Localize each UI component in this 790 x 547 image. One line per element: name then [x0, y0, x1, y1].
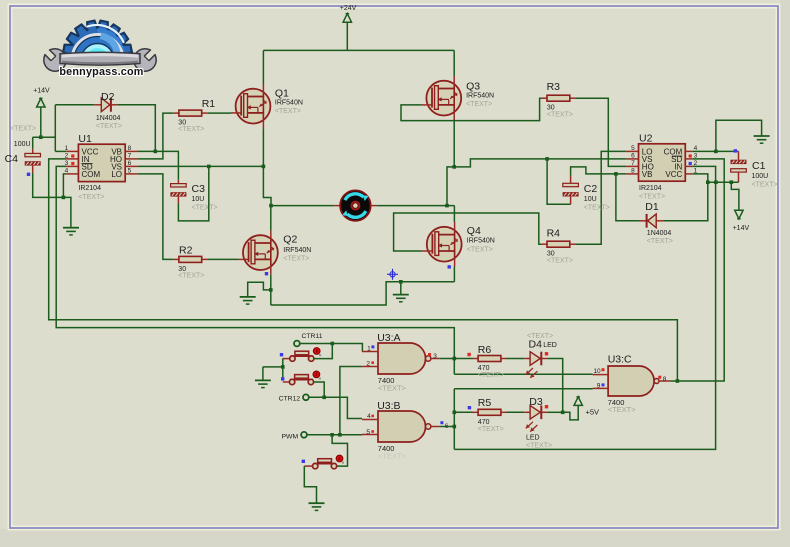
svg-text:U2: U2	[639, 132, 653, 144]
svg-text:IRF540N: IRF540N	[275, 100, 303, 107]
IC U1 IR2104 body	[78, 144, 125, 181]
lead D1 left	[639, 220, 647, 222]
svg-text:COM: COM	[82, 170, 101, 179]
wire button2 right down	[314, 382, 325, 397]
svg-text:<TEXT>: <TEXT>	[647, 238, 673, 245]
marker blue U3B pin6	[440, 421, 443, 424]
lead D2 right	[111, 104, 117, 106]
lead D1 right	[656, 220, 663, 222]
ground top right	[754, 135, 770, 137]
junction Q2 source ground tap	[269, 288, 273, 292]
wire COM to ground	[716, 120, 762, 151]
lead C3 bottom	[177, 197, 179, 204]
svg-text:<TEXT>: <TEXT>	[639, 194, 665, 201]
transistor Q4 IRF540N	[427, 227, 462, 262]
svg-text:Q4: Q4	[467, 225, 481, 237]
ground below U1	[63, 227, 79, 229]
marker red U3C pin8	[658, 376, 661, 379]
wire C3 bottom loop to VS	[178, 166, 208, 221]
junction net B U3B out	[453, 425, 457, 429]
wire R5 to D3	[507, 411, 525, 413]
svg-text:CTR11: CTR11	[302, 333, 323, 340]
marker blue C1 top	[734, 149, 737, 152]
lead button1 left	[283, 358, 290, 360]
button 3	[318, 459, 332, 463]
svg-text:+14V: +14V	[733, 225, 750, 232]
wire button3 to ground	[304, 466, 316, 503]
junction net A output row	[453, 357, 457, 361]
svg-text:PWM: PWM	[282, 433, 299, 440]
U3:C input stubs	[593, 374, 609, 376]
svg-text:<TEXT>: <TEXT>	[96, 123, 122, 130]
U3:B input stubs	[362, 419, 378, 421]
marker blue R5 left	[468, 406, 471, 409]
junction PWM button3	[330, 433, 334, 437]
wire PWM to U3A pin2	[340, 367, 362, 435]
wire rail to Q3 drain	[453, 50, 455, 76]
marker blue Q4 source	[448, 265, 451, 268]
svg-text:C4: C4	[5, 153, 19, 165]
wire net A to U3C pin10	[454, 373, 592, 375]
wire Q2 ground branch	[248, 282, 271, 297]
svg-text:2: 2	[366, 361, 370, 368]
wire C2 bottom loop	[547, 159, 571, 204]
svg-text:LED: LED	[526, 434, 540, 441]
svg-text:5: 5	[128, 168, 132, 175]
wire Q2 source down	[270, 275, 272, 305]
capacitor C1 100U	[731, 160, 747, 164]
button 2	[295, 375, 309, 379]
svg-text:1N4004: 1N4004	[647, 230, 672, 237]
marker blue button1 left	[280, 353, 283, 356]
svg-text:Q1: Q1	[275, 88, 289, 100]
lead button2 left	[283, 381, 290, 383]
wire U1 VCC	[55, 150, 66, 152]
junction Q3 source VS U2	[452, 165, 456, 169]
svg-text:R1: R1	[202, 98, 216, 110]
svg-text:7: 7	[128, 153, 132, 160]
lead R2 right	[202, 258, 208, 260]
wire motor line left	[271, 205, 334, 207]
terminal CTR12	[303, 394, 309, 400]
svg-text:<TEXT>: <TEXT>	[192, 205, 218, 212]
wire PWM to U3B pin5	[307, 434, 362, 436]
button 1	[295, 351, 309, 355]
LED arrows D4	[526, 368, 533, 375]
power flag +14V left	[37, 98, 45, 107]
svg-text:IRF540N: IRF540N	[283, 247, 311, 254]
junction COM ground	[62, 196, 66, 200]
svg-text:LO: LO	[111, 170, 122, 179]
wire U3C out to U2 SD	[670, 159, 724, 381]
wire U1 SD rail	[56, 166, 454, 374]
svg-text:R5: R5	[478, 397, 492, 409]
svg-text:6: 6	[128, 160, 132, 167]
wire ground stem Q4	[400, 282, 402, 295]
wire U1 IN rail	[49, 159, 678, 381]
svg-text:<TEXT>: <TEXT>	[526, 443, 552, 450]
wire Q3 source jog	[447, 120, 454, 205]
wire R2 to Q2 gate	[207, 258, 238, 260]
bennypass.com logo	[43, 21, 157, 78]
wire U1 COM down	[63, 174, 66, 198]
junction +14V IN riser	[714, 180, 718, 184]
svg-text:8: 8	[128, 145, 132, 152]
lead R5 right	[501, 411, 507, 413]
svg-text:D3: D3	[529, 396, 543, 408]
svg-text:C1: C1	[752, 160, 766, 172]
resistor R5 470	[478, 409, 501, 415]
svg-text:+5V: +5V	[586, 408, 600, 417]
marker blue U2 pin2	[689, 162, 692, 165]
diode D1 1N4004	[648, 214, 657, 228]
marker red U1 pin2	[71, 154, 74, 157]
svg-text:8: 8	[663, 376, 667, 383]
wire CTR12 to U3B pin4	[309, 397, 362, 418]
svg-text:30: 30	[547, 105, 555, 112]
lead C2 bottom	[570, 197, 572, 205]
junction VCC rail	[706, 180, 710, 184]
ground left buttons	[255, 379, 271, 381]
marker red U3A pin2	[371, 361, 374, 364]
lead R6 right	[501, 358, 507, 360]
lead R3 left	[541, 97, 547, 99]
svg-text:100U: 100U	[14, 141, 31, 148]
power flag +14V down	[735, 210, 743, 219]
marker red D3	[545, 405, 548, 408]
wire net B to U3C pin9	[454, 388, 592, 390]
wire U3B output	[440, 426, 455, 428]
ground below Q4	[393, 294, 409, 296]
junction CTR12 button2	[322, 396, 326, 400]
svg-text:R6: R6	[478, 344, 492, 356]
wire button rail	[282, 359, 284, 378]
svg-text:<TEXT>: <TEXT>	[178, 126, 204, 133]
wire CTR11 to U3A pin1	[300, 344, 363, 352]
svg-text:30: 30	[547, 251, 555, 258]
svg-text:Q3: Q3	[466, 80, 480, 92]
svg-text:5: 5	[366, 429, 370, 436]
wire U2 VB with jog	[571, 167, 627, 176]
junction COM riser	[714, 150, 718, 154]
svg-text:<TEXT>: <TEXT>	[378, 452, 407, 461]
junction +14V C4	[39, 135, 43, 139]
svg-text:IRF540N: IRF540N	[467, 238, 495, 245]
svg-text:8: 8	[631, 168, 635, 175]
wire net B vertical	[453, 389, 455, 450]
marker blue Q2 source	[265, 272, 268, 275]
junction D2 VB	[154, 150, 158, 154]
wire U2 COM line	[692, 150, 738, 152]
svg-text:IR2104: IR2104	[639, 185, 662, 192]
resistor R4 30	[547, 241, 570, 247]
lead C4 bottom	[32, 166, 34, 173]
svg-text:470: 470	[478, 419, 490, 426]
wire U1 HO to R1	[137, 113, 173, 159]
wire +5V elbow	[563, 405, 579, 420]
gate U3:B 7400	[378, 411, 426, 442]
wire bottom source bus	[271, 282, 455, 305]
lead R4 right	[570, 243, 576, 245]
svg-text:1: 1	[367, 346, 371, 353]
lead R1 right	[202, 112, 208, 114]
wire +14V stem left	[40, 107, 42, 137]
svg-text:<TEXT>: <TEXT>	[283, 256, 309, 263]
wire D3 to LED node	[548, 411, 563, 413]
marker red U2 pin3	[689, 154, 692, 157]
lead C1 bottom	[738, 172, 740, 182]
wire net B R5 row	[454, 411, 472, 413]
wire D2 cathode to VB	[117, 105, 155, 152]
wire U1 VB line	[137, 151, 178, 179]
transistor Q3 IRF540N	[426, 81, 461, 116]
marker red R6 left	[467, 353, 470, 356]
wire ground branch left	[263, 366, 283, 368]
svg-text:D2: D2	[101, 91, 115, 103]
lead C3 top	[177, 180, 179, 184]
lead R6 left	[473, 358, 479, 360]
svg-text:CTR12: CTR12	[279, 396, 301, 403]
junction LED +5V node	[561, 411, 565, 415]
wire D2 anode	[55, 104, 94, 106]
lead motor left	[334, 205, 340, 207]
capacitor C2 10U	[563, 183, 579, 186]
marker red U1 pin3	[71, 162, 74, 165]
svg-text:U3:B: U3:B	[377, 400, 400, 412]
junction motor right node	[445, 204, 449, 208]
wire Q4 source down	[453, 266, 455, 281]
wire +14V arrow jog	[731, 182, 739, 210]
junction VB D1	[614, 172, 618, 176]
U1 SD overline	[82, 163, 93, 165]
wire net B to U2 IN	[454, 166, 715, 449]
marker blue C4	[27, 173, 30, 176]
wire Q3 gate loop	[401, 98, 541, 120]
gate U3:C 7400	[608, 366, 654, 396]
wire C4 bottom	[33, 173, 71, 228]
svg-text:<TEXT>: <TEXT>	[608, 405, 637, 414]
diode D2 1N4004	[101, 98, 110, 112]
svg-text:C3: C3	[192, 183, 206, 195]
junction ground tap Q4	[399, 280, 403, 284]
svg-text:7: 7	[631, 160, 635, 167]
marker blue button2 left	[281, 377, 284, 380]
wire VB to D1	[616, 174, 639, 221]
svg-text:<TEXT>: <TEXT>	[547, 258, 573, 265]
lead R2 left	[173, 258, 179, 260]
transistor Q1 IRF540N	[236, 89, 271, 124]
wire U3A output	[440, 358, 473, 360]
wire +14V rail right	[708, 181, 739, 183]
lead C2 top	[570, 176, 572, 184]
lead R3 right	[570, 97, 576, 99]
svg-text:10U: 10U	[192, 196, 205, 203]
marker red U3C pin10	[602, 368, 605, 371]
terminal PWM	[301, 432, 307, 438]
svg-text:<TEXT>: <TEXT>	[275, 108, 301, 115]
junction Q1 source VS	[262, 165, 266, 169]
wire R6 to D4	[507, 358, 525, 360]
svg-text:U1: U1	[78, 133, 92, 145]
wire +14V column	[54, 105, 56, 152]
lead C1 top	[738, 151, 740, 159]
svg-text:<TEXT>: <TEXT>	[467, 246, 493, 253]
IC U2 IR2104 body	[639, 144, 686, 181]
wire +24V rail	[263, 49, 454, 51]
svg-text:R3: R3	[547, 81, 561, 93]
wire U1 VS line	[137, 165, 263, 167]
marker red D4	[545, 352, 548, 355]
ground below Q2	[240, 296, 256, 298]
svg-text:<TEXT>: <TEXT>	[78, 194, 104, 201]
lead D3 left	[524, 411, 530, 413]
wire C4 stem top	[32, 137, 34, 149]
svg-text:+24V: +24V	[340, 5, 357, 12]
lead R4 left	[541, 243, 547, 245]
wire D4 to LED node	[548, 359, 563, 413]
svg-text:D4: D4	[529, 339, 543, 351]
lead motor right	[371, 205, 377, 207]
diode D3 LED	[530, 406, 540, 420]
svg-text:<TEXT>: <TEXT>	[478, 372, 504, 379]
svg-text:R2: R2	[179, 245, 193, 257]
svg-text:<TEXT>: <TEXT>	[10, 125, 36, 132]
wire U1 LO to R2	[137, 174, 173, 260]
lead R1 left	[173, 112, 179, 114]
svg-text:+14V: +14V	[33, 88, 50, 95]
lead D3 right	[541, 411, 548, 413]
svg-text:1N4004: 1N4004	[96, 115, 121, 122]
marker blue button3 left	[302, 460, 305, 463]
svg-text:VCC: VCC	[665, 170, 682, 179]
LED arrows D3	[526, 422, 533, 429]
lead D4 right	[541, 358, 548, 360]
svg-text:<TEXT>: <TEXT>	[478, 426, 504, 433]
wire motor node to Q2 drain	[270, 206, 272, 231]
wire Q1 source to motor node	[263, 128, 271, 205]
resistor R2 30	[179, 256, 202, 262]
junction motor left node	[269, 204, 273, 208]
wire R4 to U2 LO	[575, 151, 626, 244]
lead D4 left	[524, 358, 530, 360]
svg-text:470: 470	[478, 365, 490, 372]
wire C4 top rail	[33, 136, 56, 138]
junction U3C out rail	[676, 379, 680, 383]
svg-text:U3:C: U3:C	[608, 353, 632, 365]
junction C2 VS	[545, 157, 549, 161]
wire D1 to VCC node	[663, 174, 707, 221]
junction +14V C1	[730, 180, 734, 184]
svg-text:IRF540N: IRF540N	[466, 93, 494, 100]
origin marker	[387, 269, 398, 280]
svg-text:6: 6	[631, 153, 635, 160]
lead R5 left	[473, 411, 479, 413]
svg-text:<TEXT>: <TEXT>	[584, 204, 610, 211]
svg-text:10U: 10U	[584, 196, 597, 203]
svg-text:<TEXT>: <TEXT>	[178, 272, 204, 279]
svg-text:U3:A: U3:A	[377, 332, 400, 344]
power flag +5V	[574, 397, 582, 406]
capacitor C3 10U	[171, 184, 187, 187]
svg-text:bennypass.com: bennypass.com	[59, 66, 143, 78]
wire ground stem left	[262, 367, 264, 381]
svg-text:100U: 100U	[752, 173, 769, 180]
capacitor C4 100U	[25, 153, 41, 156]
svg-text:3: 3	[433, 353, 437, 360]
resistor R3 30	[547, 95, 570, 101]
svg-text:VB: VB	[642, 170, 653, 179]
marker blue U3C pin9	[602, 383, 605, 386]
marker blue U3A pin1	[371, 345, 374, 348]
svg-text:<TEXT>: <TEXT>	[752, 182, 778, 189]
motor M1	[340, 190, 370, 220]
U2 pin stubs	[626, 150, 638, 152]
svg-text:5: 5	[631, 145, 635, 152]
svg-text:<TEXT>: <TEXT>	[466, 101, 492, 108]
U2 SD overline	[672, 155, 683, 157]
lead button3 left	[304, 465, 312, 467]
diode D4 LED	[530, 352, 540, 366]
resistor R6 470	[478, 356, 501, 362]
gate U3:A 7400	[378, 343, 426, 374]
svg-text:C2: C2	[584, 183, 598, 195]
svg-text:Q2: Q2	[283, 234, 297, 246]
svg-text:9: 9	[597, 383, 601, 390]
junction CTR11 button1	[331, 342, 335, 346]
U1 pin stubs	[66, 150, 78, 152]
wire PWM to button3	[332, 435, 347, 466]
wire motor line right	[377, 205, 455, 207]
junction PWM U3A pin2	[338, 433, 342, 437]
wire Q4 gate loop	[394, 213, 542, 251]
svg-text:D1: D1	[645, 201, 659, 213]
lead D2 left	[94, 104, 101, 106]
terminal CTR11	[294, 341, 300, 347]
junction C3 VS	[207, 165, 211, 169]
svg-text:IR2104: IR2104	[78, 185, 101, 192]
wire U2 VS line	[454, 159, 626, 167]
marker red U3A pin3	[428, 353, 431, 356]
wire +24V stem	[346, 22, 348, 50]
power flag +24V	[343, 14, 351, 23]
wire motor node to Q4 drain	[453, 206, 455, 222]
U3:A input stubs	[362, 351, 378, 353]
junction net B R5	[453, 411, 457, 415]
junction buttons ground	[281, 365, 285, 369]
lead C4 top	[32, 149, 34, 154]
ground bottom	[309, 502, 325, 504]
svg-text:<TEXT>: <TEXT>	[547, 112, 573, 119]
svg-text:4: 4	[367, 413, 371, 420]
wire R1 to Q1 gate	[207, 112, 231, 114]
marker red U3B pin4	[371, 415, 374, 418]
wire button1 right up	[314, 344, 332, 359]
svg-text:10: 10	[593, 368, 601, 375]
marker red U3B pin5	[371, 430, 374, 433]
resistor R1 30	[179, 110, 202, 116]
wire R3 to U2 HO	[575, 98, 626, 166]
wire rail to Q1 drain	[262, 50, 264, 84]
svg-text:<TEXT>: <TEXT>	[378, 384, 407, 393]
svg-text:R4: R4	[547, 228, 561, 240]
transistor Q2 IRF540N	[243, 235, 278, 270]
svg-text:LED: LED	[543, 342, 557, 349]
